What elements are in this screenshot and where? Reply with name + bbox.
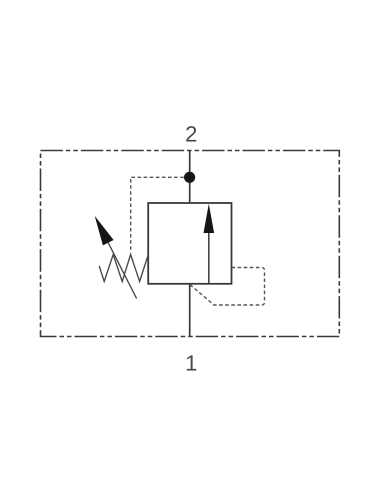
wire valve to port 1 xyxy=(189,284,191,337)
svg-text:2: 2 xyxy=(185,122,197,147)
node junction dot xyxy=(184,172,195,183)
adjustment arrowhead xyxy=(95,216,114,246)
svg-text:1: 1 xyxy=(185,351,197,376)
adjustment arrow shaft xyxy=(108,243,136,299)
enclosure boundary (phantom chain line) xyxy=(41,151,340,337)
flow arrowhead xyxy=(204,204,215,233)
pilot line left (dashed from node to spring) xyxy=(131,177,184,252)
wire port 2 to valve xyxy=(189,151,191,204)
spring (zigzag) xyxy=(99,255,148,282)
pilot line right (dashed drain) xyxy=(190,268,264,306)
flow arrow shaft xyxy=(208,231,210,284)
valve body U1 xyxy=(148,203,231,284)
